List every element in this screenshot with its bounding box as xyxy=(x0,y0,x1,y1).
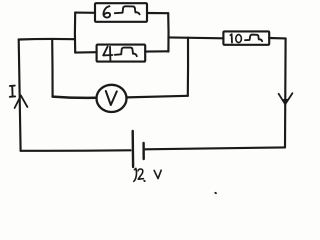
value label omega R2 xyxy=(115,48,137,57)
node B (parallel right bus) xyxy=(167,13,170,51)
wire top right xyxy=(269,37,285,40)
label 12 V : letter V xyxy=(154,170,161,178)
label I xyxy=(10,85,15,87)
voltmeter V label xyxy=(106,91,117,105)
value label omega R1 xyxy=(115,6,140,14)
value label 6 xyxy=(103,6,110,17)
label 12 V : digit 2 xyxy=(138,169,143,179)
speck xyxy=(214,192,217,194)
wire bottom right xyxy=(145,147,285,149)
node A (parallel left bus) xyxy=(74,12,76,52)
wire 6-ohm branch left xyxy=(75,12,95,14)
voltmeter U1 circle xyxy=(97,85,127,112)
value label 4 xyxy=(103,47,112,56)
wire 6-ohm branch right xyxy=(147,12,168,14)
wire bottom left xyxy=(21,149,131,152)
wire voltmeter branch left horizontal xyxy=(53,97,97,98)
battery B1 plate short xyxy=(142,143,144,159)
wire voltmeter branch right vertical xyxy=(187,38,189,96)
value label 0 (10 ohm) xyxy=(236,35,242,43)
label 12 V : digit 1 xyxy=(134,168,137,181)
wire voltmeter branch right horizontal xyxy=(127,96,188,98)
wire 4-ohm branch left xyxy=(75,51,96,54)
wire 4-ohm branch right xyxy=(145,50,168,52)
resistor R2 box xyxy=(97,45,146,62)
wire left vertical xyxy=(19,40,21,151)
wire middle horizontal xyxy=(168,36,223,39)
wire top left horizontal xyxy=(19,38,75,41)
value label 1 (10 ohm) xyxy=(231,34,233,42)
value label omega (10 ohm) xyxy=(245,35,262,42)
battery B1 plate long xyxy=(131,131,134,167)
wire voltmeter branch left vertical xyxy=(51,39,54,96)
resistor R3 box xyxy=(223,31,269,44)
wire right vertical xyxy=(284,38,287,147)
label 12 V : dot xyxy=(143,180,146,182)
current arrow I (up) xyxy=(15,96,21,108)
current arrow right (down) xyxy=(279,94,286,104)
resistor R1 box xyxy=(95,3,147,22)
